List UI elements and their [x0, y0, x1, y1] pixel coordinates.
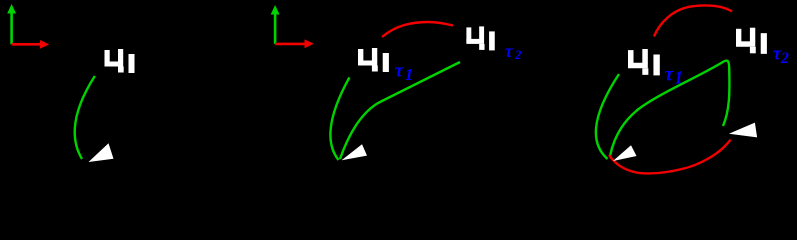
svg-text:τ: τ: [505, 41, 514, 61]
svg-text:τ: τ: [665, 63, 675, 85]
svg-text:2: 2: [780, 50, 789, 67]
svg-text:τ: τ: [395, 60, 404, 81]
svg-text:1: 1: [405, 65, 414, 84]
svg-text:2: 2: [514, 47, 522, 62]
